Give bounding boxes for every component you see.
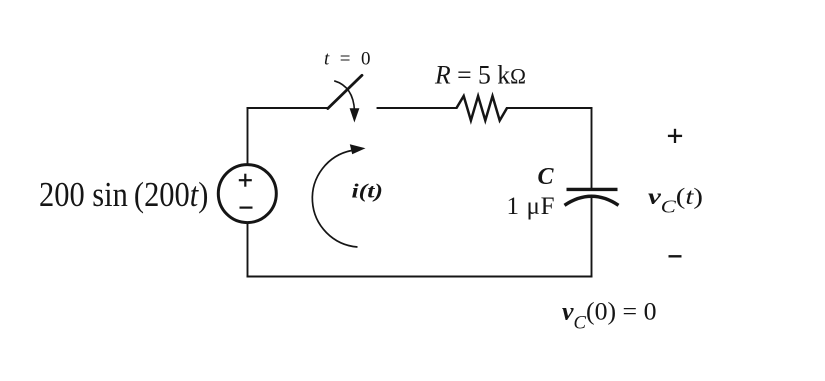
svg-text:vC(0) = 0: vC(0) = 0 <box>562 297 657 334</box>
wire left vertical top (source to top-left corner) <box>247 108 249 165</box>
wire left vertical bottom (source to bottom-left corner) <box>247 222 249 276</box>
wire right vertical top (corner down to capacitor) <box>591 108 593 188</box>
source plus sign <box>239 174 252 187</box>
svg-text:C: C <box>538 164 555 190</box>
switch actuation arrow <box>334 81 359 123</box>
label minus terminal of vC <box>669 255 682 257</box>
capacitor C bottom curved plate <box>565 196 619 205</box>
wire top segment resistor to top-right corner <box>507 107 592 109</box>
label C <box>538 164 555 190</box>
current arrow i(t) arc <box>312 144 365 247</box>
resistor R = 5 kOhm zigzag <box>457 96 508 121</box>
wire top left segment (corner to switch hinge) <box>248 107 328 109</box>
wire bottom segment <box>248 276 592 278</box>
svg-text:t = 0: t = 0 <box>324 49 371 70</box>
label vC(t) <box>648 184 703 217</box>
label 1 uF <box>507 193 555 220</box>
label plus terminal of vC <box>668 129 682 143</box>
source minus sign <box>240 207 253 209</box>
label source value 200 sin(200t) <box>39 176 208 214</box>
source V1 circle (sinusoidal voltage source) <box>218 165 276 223</box>
svg-text:vC(t): vC(t) <box>648 184 703 217</box>
label R = 5 kOhm <box>434 60 526 90</box>
svg-text:i(t): i(t) <box>352 181 384 203</box>
svg-text:R = 5 kΩ: R = 5 kΩ <box>434 60 526 90</box>
label initial condition vC(0) = 0 <box>562 297 657 334</box>
svg-text:1 μF: 1 μF <box>507 193 555 220</box>
label i(t) <box>352 181 384 203</box>
label t = 0 <box>324 49 371 70</box>
capacitor C top plate <box>567 188 618 191</box>
wire right vertical bottom (capacitor to bottom-right corner) <box>591 196 593 276</box>
wire top right segment (switch to resistor) <box>378 107 457 109</box>
svg-text:200 sin (200t): 200 sin (200t) <box>39 176 208 214</box>
switch blade (opens at t=0) <box>328 75 362 108</box>
